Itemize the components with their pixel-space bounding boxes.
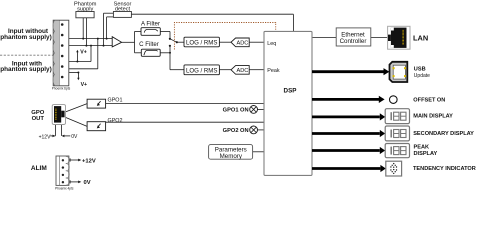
svg-text:TENDENCY INDICATOR: TENDENCY INDICATOR: [413, 166, 476, 172]
svg-text:V+: V+: [80, 49, 87, 55]
svg-text:LOG / RMS: LOG / RMS: [186, 40, 218, 47]
svg-text:A Filter: A Filter: [141, 20, 160, 27]
svg-text:phantom supply): phantom supply): [0, 34, 51, 41]
svg-text:Phoenix 4pts: Phoenix 4pts: [55, 186, 74, 190]
svg-text:0V: 0V: [71, 134, 78, 140]
svg-text:Leq: Leq: [267, 41, 276, 47]
svg-text:detect: detect: [115, 6, 131, 12]
svg-text:C Filter: C Filter: [139, 41, 159, 48]
svg-text:+12V: +12V: [82, 158, 96, 164]
svg-text:phantom supply): phantom supply): [0, 66, 51, 73]
svg-text:Controller: Controller: [340, 38, 367, 45]
svg-text:0V: 0V: [84, 180, 91, 186]
svg-text:ALIM: ALIM: [31, 165, 47, 172]
svg-text:Peak: Peak: [267, 68, 280, 74]
svg-text:OFFSET ON: OFFSET ON: [413, 98, 445, 104]
svg-text:GPO2 ON: GPO2 ON: [223, 128, 249, 134]
svg-text:DISPLAY: DISPLAY: [414, 151, 438, 157]
svg-text:USB: USB: [414, 66, 426, 72]
svg-text:MAIN DISPLAY: MAIN DISPLAY: [413, 114, 453, 120]
svg-text:LOG / RMS: LOG / RMS: [186, 67, 218, 74]
svg-text:supply: supply: [77, 6, 93, 12]
svg-text:GPO1: GPO1: [108, 98, 123, 104]
svg-text:GPO2: GPO2: [108, 118, 123, 124]
svg-text:Update: Update: [414, 73, 430, 79]
svg-text:ADC: ADC: [236, 41, 248, 47]
svg-text:+12V: +12V: [39, 134, 51, 140]
svg-text:SECONDARY DISPLAY: SECONDARY DISPLAY: [413, 131, 474, 137]
svg-text:DSP: DSP: [284, 87, 297, 94]
svg-text:LAN: LAN: [413, 33, 428, 42]
svg-text:GPO1 ON: GPO1 ON: [223, 108, 249, 114]
svg-text:Memory: Memory: [220, 153, 243, 160]
svg-text:V+: V+: [81, 82, 88, 88]
svg-text:PEAK: PEAK: [414, 145, 430, 151]
svg-text:Phoenix 6pts: Phoenix 6pts: [52, 87, 71, 91]
svg-text:OUT: OUT: [32, 116, 45, 122]
svg-text:ADC: ADC: [236, 68, 248, 74]
